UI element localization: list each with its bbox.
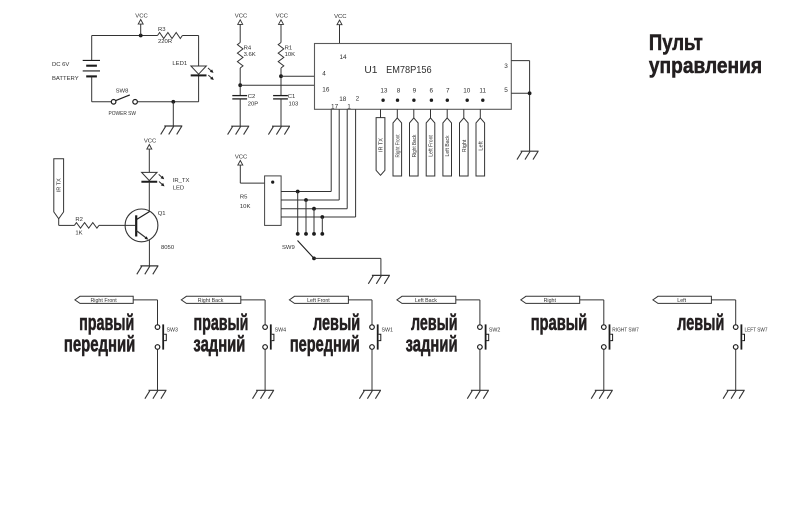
svg-text:VCC: VCC (276, 14, 289, 20)
ground (SW1) (359, 390, 381, 398)
node IR TX source flag (54, 159, 64, 219)
node Left Back flag (397, 296, 456, 304)
resistor network R5 10K (240, 176, 281, 226)
svg-text:управления: управления (649, 53, 762, 78)
resistor R1 10K (278, 43, 295, 69)
ground (power) (161, 126, 183, 134)
wire R4 to C2 (239, 68, 241, 96)
wire Left flag to LEFT SW7 (711, 299, 735, 301)
node SW9 pivot dot (312, 257, 316, 261)
node VCC junction dot (139, 34, 143, 38)
wire pin stubs to flags (381, 109, 481, 118)
wire pins 3-5 to ground (529, 61, 531, 152)
svg-text:передний: передний (290, 332, 360, 357)
battery BT1 DC 6V (52, 36, 100, 102)
wire VCC to R5 (240, 182, 264, 184)
svg-text:Q1: Q1 (158, 211, 166, 217)
svg-text:LED: LED (173, 185, 184, 191)
wire pin16 net (240, 84, 314, 86)
svg-text:7: 7 (446, 87, 450, 94)
wire R3 to LED1 (182, 35, 198, 37)
wire SW2 to ground (479, 349, 481, 390)
svg-text:C1: C1 (288, 94, 296, 100)
svg-text:2: 2 (356, 96, 360, 103)
svg-text:EM78P156: EM78P156 (386, 65, 432, 76)
wire top battery rail (92, 35, 158, 37)
wire stub SW9 contact 1 (297, 192, 299, 234)
ground (SW4) (253, 390, 275, 398)
power VCC (battery rail) (135, 13, 148, 35)
svg-text:VCC: VCC (334, 14, 347, 20)
wire R2 to Q1 base (99, 224, 135, 226)
pin dots row (381, 99, 484, 102)
svg-text:Left: Left (677, 298, 686, 304)
node Right flag (460, 118, 469, 176)
svg-text:R2: R2 (75, 217, 83, 223)
svg-text:17: 17 (331, 104, 339, 111)
switch SW1 (370, 324, 393, 349)
node Right Back flag (410, 118, 419, 176)
resistor R4 3.6K (237, 43, 255, 69)
svg-text:Left Front: Left Front (429, 135, 435, 157)
node Right Back flag (181, 296, 241, 304)
svg-text:LEFT SW7: LEFT SW7 (745, 327, 768, 333)
node Left flag (653, 296, 712, 304)
wire R5 row 3 to IC (281, 208, 347, 210)
wire R5 row 4 to IC (281, 216, 356, 218)
switch SW4 (263, 324, 286, 349)
switch SW9 (282, 241, 314, 259)
wire Right flag to RIGHT SW7 (580, 299, 604, 301)
wire R1 to C1 (280, 68, 282, 96)
svg-text:18: 18 (339, 96, 347, 103)
svg-text:Right: Right (544, 298, 557, 304)
svg-text:R1: R1 (285, 46, 293, 52)
transistor Q1 8050 (125, 209, 175, 251)
wire SW9 to ground (314, 257, 381, 259)
svg-text:задний: задний (406, 332, 458, 357)
svg-text:Left Back: Left Back (415, 298, 437, 304)
wire SW1 to ground (371, 349, 373, 390)
switch RIGHT SW7 (602, 324, 639, 349)
node Left flag (476, 118, 485, 176)
node OSC junction dot (238, 83, 242, 87)
capacitor C2 20P (232, 94, 258, 108)
switch SW8 POWER SW (109, 89, 138, 118)
svg-text:IR TX: IR TX (57, 178, 63, 192)
power VCC (IR LED) (144, 138, 157, 172)
wire stub SW9 contact 2 (305, 200, 307, 234)
svg-text:IR_TX: IR_TX (173, 178, 190, 184)
svg-text:задний: задний (193, 332, 245, 357)
svg-text:BATTERY: BATTERY (52, 76, 79, 82)
wire flag to R2 (58, 219, 60, 226)
svg-text:SW9: SW9 (282, 245, 295, 251)
wire C1 to ground (280, 99, 282, 126)
svg-text:SW1: SW1 (382, 327, 394, 333)
node pin4 junction dot (279, 74, 283, 78)
svg-text:передний: передний (64, 332, 136, 357)
node Right Front flag (75, 296, 133, 304)
node junction dot row 2 (304, 198, 308, 202)
svg-text:VCC: VCC (235, 14, 248, 20)
ground (SW3) (145, 390, 167, 398)
ground (LEFT SW7) (723, 390, 745, 398)
wire Left Back flag to SW2 (456, 299, 480, 301)
svg-text:14: 14 (339, 54, 347, 61)
wire stub SW9 contact 4 (321, 217, 323, 234)
svg-text:Right Front: Right Front (90, 298, 117, 304)
svg-text:POWER SW: POWER SW (109, 111, 137, 117)
svg-text:3: 3 (504, 63, 508, 70)
wire SW3 to ground (157, 349, 159, 390)
ground (SW2) (467, 390, 489, 398)
wire pin 3 (511, 60, 529, 62)
wire SW8 to LED1 cathode (137, 101, 198, 103)
switch LEFT SW7 (733, 324, 767, 349)
svg-text:Пульт: Пульт (649, 30, 703, 55)
svg-text:Right: Right (462, 139, 468, 152)
wire LED to Q1 collector (148, 182, 150, 212)
svg-text:Left Back: Left Back (445, 135, 451, 156)
power VCC (R5) (235, 154, 248, 183)
node Left Front flag (289, 296, 348, 304)
node junction dot row 1 (296, 190, 300, 194)
svg-text:1: 1 (347, 104, 351, 111)
svg-text:Right Front: Right Front (395, 134, 401, 157)
svg-text:RIGHT SW7: RIGHT SW7 (612, 327, 639, 333)
ground (RIGHT SW7) (591, 390, 613, 398)
svg-text:VCC: VCC (135, 13, 148, 19)
svg-text:6: 6 (430, 87, 434, 94)
LED IR_TX LED (141, 172, 164, 186)
capacitor C1 103 (273, 94, 299, 108)
svg-text:SW2: SW2 (489, 327, 501, 333)
node pin5 junction dot (528, 91, 532, 95)
wire R5 row 2 to IC (281, 199, 339, 201)
svg-text:103: 103 (289, 102, 300, 108)
svg-text:SW4: SW4 (275, 327, 287, 333)
svg-text:правый: правый (531, 310, 588, 335)
svg-text:R4: R4 (244, 46, 252, 52)
svg-text:1K: 1K (75, 231, 82, 237)
ground (C1) (268, 126, 290, 134)
wire battery to SW8 (92, 101, 112, 103)
LED D LED1 (191, 66, 214, 80)
ground (SW9) (368, 275, 390, 283)
switch SW3 (155, 324, 178, 349)
power VCC (R1) (276, 14, 289, 43)
svg-text:13: 13 (380, 87, 388, 94)
node Right flag (521, 296, 580, 304)
wire Left Front flag to SW1 (348, 299, 372, 301)
ground (Q1) (137, 266, 159, 274)
svg-text:8: 8 (397, 87, 401, 94)
power VCC (pin 14) (334, 14, 347, 44)
svg-text:DC 6V: DC 6V (52, 62, 69, 68)
svg-text:Left Front: Left Front (307, 298, 330, 304)
node junction dot at ground branch (171, 100, 175, 104)
svg-text:10: 10 (463, 87, 471, 94)
svg-text:8050: 8050 (161, 245, 175, 251)
svg-text:10K: 10K (285, 52, 296, 58)
wire R5 row 1 to IC (281, 191, 331, 193)
svg-text:9: 9 (413, 87, 417, 94)
op-amp U1 EM78P156 (IC box) (315, 44, 512, 110)
svg-text:R3: R3 (158, 27, 166, 33)
wire stub SW9 contact 3 (313, 209, 315, 234)
power VCC (R4) (235, 14, 248, 43)
wire LEFT SW7 to ground (735, 349, 737, 390)
switch SW2 (478, 324, 501, 349)
svg-text:20P: 20P (248, 102, 259, 108)
wire to ground (172, 102, 174, 126)
svg-text:Right Back: Right Back (412, 135, 418, 158)
svg-text:3.6K: 3.6K (244, 52, 256, 58)
node junction dot row 4 (320, 215, 324, 219)
svg-text:10K: 10K (240, 204, 251, 210)
resistor R2 1K (74, 217, 99, 237)
wire Right Back flag to SW4 (241, 299, 265, 301)
svg-text:11: 11 (479, 87, 486, 94)
node Left Back flag (443, 118, 452, 176)
svg-text:SW3: SW3 (167, 327, 179, 333)
wire pin4 net (281, 75, 315, 77)
svg-text:Right Back: Right Back (198, 298, 224, 304)
node Left Front flag (426, 118, 435, 176)
node junction dot row 3 (312, 207, 316, 211)
svg-text:IR TX: IR TX (379, 138, 385, 152)
ground (C2) (228, 126, 250, 134)
svg-text:5: 5 (504, 87, 508, 94)
svg-text:SW8: SW8 (116, 89, 129, 95)
resistor R3 (158, 27, 183, 45)
node Right Front flag (393, 118, 402, 176)
svg-text:16: 16 (322, 87, 330, 94)
label title Пульт управления (649, 30, 762, 78)
wire pin 5 (511, 92, 529, 94)
ground (pins 3,5) (517, 151, 539, 159)
wire Q1 emitter to ground (148, 240, 150, 266)
svg-text:R5: R5 (240, 195, 248, 201)
wire Right Front flag to SW3 (133, 299, 157, 301)
svg-text:220R: 220R (158, 39, 172, 45)
svg-text:LED1: LED1 (172, 61, 187, 67)
svg-text:VCC: VCC (235, 154, 248, 160)
svg-text:левый: левый (677, 310, 724, 335)
svg-text:Left: Left (478, 141, 484, 151)
svg-text:C2: C2 (248, 94, 256, 100)
svg-text:VCC: VCC (144, 138, 157, 144)
node IR TX flag (376, 118, 385, 176)
svg-text:U1: U1 (364, 65, 377, 76)
svg-text:4: 4 (322, 70, 326, 77)
wire RIGHT SW7 to ground (603, 349, 605, 390)
wire C2 to ground (239, 99, 241, 126)
wire SW4 to ground (264, 349, 266, 390)
